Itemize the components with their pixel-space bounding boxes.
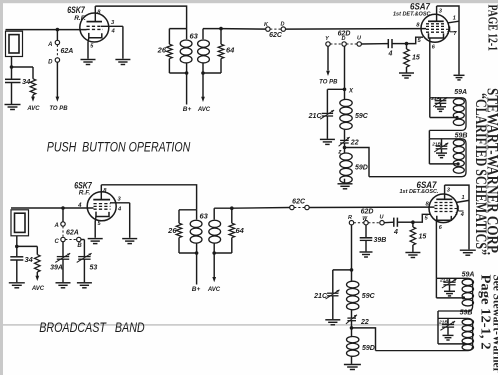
svg-text:62C: 62C xyxy=(292,199,306,206)
svg-text:3: 3 xyxy=(455,211,458,217)
switch 62A dashed contact (top) xyxy=(56,45,58,58)
tube V1 plate and pin 8 xyxy=(87,21,103,23)
node 64 top junction (bottom) xyxy=(230,206,234,210)
svg-text:“CLARIFIED SCHEMATICS”: “CLARIFIED SCHEMATICS” xyxy=(472,93,489,255)
wire 62C to tube V4 grid xyxy=(309,206,434,208)
svg-text:1: 1 xyxy=(462,195,465,201)
wire AVC arrow (top-left) xyxy=(32,95,34,99)
capacitor 4 (top) xyxy=(387,39,389,48)
tube V2 pins 3,7 bracket right xyxy=(446,28,450,30)
switch 62A dashed contact A-C (bottom) xyxy=(62,226,64,237)
wire node Z to 59B bottom (bottom) xyxy=(352,328,376,351)
wire 59A bottom tap (bottom) xyxy=(436,297,463,299)
scan edge top band xyxy=(0,0,498,3)
node secondary-AVC junction (bottom) xyxy=(212,251,216,255)
svg-text:39A: 39A xyxy=(50,265,63,272)
svg-text:59C: 59C xyxy=(362,293,376,300)
svg-text:B+: B+ xyxy=(183,106,192,113)
node secondary-AVC junction (top) xyxy=(201,71,205,75)
node cap4-res15 junction (top) xyxy=(405,42,409,46)
svg-text:Page 12-1, 2: Page 12-1, 2 xyxy=(479,275,494,350)
svg-text:64: 64 xyxy=(236,226,245,235)
wire tube V4 top to ground bus xyxy=(445,185,469,249)
tube V1 cathode xyxy=(89,33,102,38)
wire antenna lead down (bottom) xyxy=(16,236,18,247)
node primary-B+ junction (top) xyxy=(185,71,189,75)
svg-text:4: 4 xyxy=(77,203,82,209)
switch 62A dashed contact C-B (bottom) xyxy=(65,239,76,241)
svg-text:34: 34 xyxy=(25,255,34,264)
svg-text:62C: 62C xyxy=(269,32,283,39)
trimmer capacitor 21A xyxy=(440,98,442,100)
ground for trimmer 21B (bottom) xyxy=(447,327,449,335)
wire junction to tube V2 pin 5 xyxy=(407,37,424,43)
svg-text:21B: 21B xyxy=(438,320,448,326)
svg-text:26: 26 xyxy=(157,46,167,55)
wire B+ (top) xyxy=(186,73,188,105)
svg-text:21A: 21A xyxy=(439,278,449,284)
capacitor 34 (top) xyxy=(11,67,13,79)
switch 62D terminal U (bottom) xyxy=(380,221,384,225)
wire 62D-W to capacitor 39B xyxy=(365,225,367,237)
IF transformer 63 secondary winding (bottom) xyxy=(213,208,215,219)
wire plate V1 to IF transformer 63 (top) xyxy=(95,6,186,29)
switch 62C dashed contact (bottom) xyxy=(294,207,305,209)
loop antenna (bottom section) xyxy=(11,210,29,236)
svg-text:1st DET.&OSC.: 1st DET.&OSC. xyxy=(399,189,438,195)
switch 62D dashed contacts (bottom) xyxy=(354,222,364,224)
wire main antenna bus (bottom section) xyxy=(11,207,94,209)
tube V4 plate and pin 3 top lead xyxy=(436,198,452,200)
svg-text:62A: 62A xyxy=(61,48,74,55)
wire 62D-U to capacitor 4 (bottom) xyxy=(384,221,394,224)
oscillator coil 59C (bottom) xyxy=(351,270,353,281)
svg-text:4: 4 xyxy=(388,51,393,58)
ground below resistor 15 (top) xyxy=(399,72,414,74)
ground below 21C (bottom) xyxy=(332,296,334,319)
loop antenna (top section) xyxy=(6,31,23,56)
wire junction to tube V4 pin 5 xyxy=(413,214,430,222)
svg-text:BROADCAST BAND: BROADCAST BAND xyxy=(39,319,145,335)
svg-text:62D: 62D xyxy=(361,209,374,216)
svg-text:PAGE 12-1: PAGE 12-1 xyxy=(486,5,498,52)
ground below 39A xyxy=(62,259,64,282)
node X oscillator grid (top) xyxy=(343,88,347,92)
tube V1 grid rows xyxy=(87,25,102,27)
wire 59B box left side (bottom) xyxy=(437,318,439,344)
svg-text:4: 4 xyxy=(393,229,398,236)
wire to push buttons (top) xyxy=(56,62,58,98)
resistor 64 shunt (top) xyxy=(203,28,221,30)
scan edge left band xyxy=(0,0,3,375)
wire node X to trimmer 21C (bottom) xyxy=(333,269,352,271)
wire 59A box left side (bottom) xyxy=(435,278,437,298)
svg-text:21A: 21A xyxy=(430,96,440,102)
wire AVC (bottom transformer) xyxy=(213,253,215,279)
svg-text:AVC: AVC xyxy=(197,107,211,113)
switch 62C dashed contact (top) xyxy=(270,28,281,30)
switch 62A terminal A (top) xyxy=(56,30,58,41)
tube V4 pins 3,4 bracket right xyxy=(455,208,459,210)
svg-text:6SK7: 6SK7 xyxy=(67,5,85,15)
svg-text:PUSH BUTTON OPERATION: PUSH BUTTON OPERATION xyxy=(47,139,191,155)
wire 59D to ground (top) xyxy=(344,179,346,184)
svg-text:64: 64 xyxy=(226,46,235,55)
switch 62D terminal U (top) xyxy=(357,42,361,46)
oscillator coil 59D (bottom) xyxy=(347,336,359,342)
svg-text:59D: 59D xyxy=(355,165,368,172)
wire 62C to tube V2 grid xyxy=(286,28,427,31)
trimmer capacitor 21B (bottom) xyxy=(447,318,449,324)
ground for trimmer 21A xyxy=(440,103,442,106)
wire to AVC resistor (bottom) xyxy=(17,245,38,247)
svg-text:4: 4 xyxy=(460,212,464,218)
svg-text:21C: 21C xyxy=(313,293,328,300)
svg-text:B+: B+ xyxy=(192,286,201,293)
scan fold line xyxy=(0,324,470,326)
switch 62C terminal D (top) xyxy=(281,27,285,31)
wire plate V3 to IF transformer 63 (bottom) xyxy=(101,185,196,210)
tube V3 pin 5 lead to ground xyxy=(94,217,97,238)
wire to AVC resistor (top) xyxy=(12,66,34,68)
svg-text:15: 15 xyxy=(419,234,427,241)
tube V1 pin 5 lead to ground xyxy=(87,38,90,59)
switch 62D terminal Y (top) xyxy=(326,42,330,46)
trimmer capacitor 21C (top) xyxy=(322,112,333,114)
wire 59A to 59B link (bottom) xyxy=(437,311,439,318)
wire node Z to 59B bottom xyxy=(345,148,370,177)
wire AVC (top transformer) xyxy=(202,73,204,99)
wire 59B bottom tap xyxy=(429,163,458,165)
wire B+ (bottom) xyxy=(196,253,198,285)
node main-62A junction (bottom) xyxy=(61,206,65,210)
node X oscillator grid (bottom) xyxy=(350,268,354,272)
tube V3 plate and pin 8 xyxy=(93,199,110,201)
tube V3 pin 3 lead to ground xyxy=(110,202,130,204)
resistor 26 shunt (bottom) xyxy=(179,209,197,211)
svg-text:1: 1 xyxy=(453,16,456,22)
ground below 21C (top) xyxy=(326,116,328,139)
tube V1 6SK7 R.F. envelope xyxy=(80,13,109,42)
wire AVC arrow (bottom-left) xyxy=(36,272,38,278)
tube V2 pin 6 lead down xyxy=(429,38,431,98)
tube V2 pin 1 lead xyxy=(448,21,459,23)
svg-text:53: 53 xyxy=(90,265,98,272)
ground right of tube V3 xyxy=(122,238,137,240)
switch 62C terminal K (bottom) xyxy=(290,205,294,209)
ground for trimmer 21A (bottom) xyxy=(449,285,451,291)
IF transformer 63 secondary winding (top) xyxy=(202,29,204,40)
node cap4-res15 junction (bottom) xyxy=(411,220,415,224)
wire 62D-U to capacitor 4 xyxy=(361,43,388,45)
tube V4 cathode xyxy=(437,216,452,221)
svg-text:15: 15 xyxy=(412,55,420,62)
svg-text:39B: 39B xyxy=(374,237,387,244)
svg-text:59A: 59A xyxy=(454,89,467,96)
svg-text:AVC: AVC xyxy=(207,287,221,293)
tube V4 pin 1 lead xyxy=(457,200,469,202)
ground below 39B xyxy=(365,240,367,251)
resistor AVC bleed (bottom) xyxy=(35,255,41,272)
svg-text:59B: 59B xyxy=(460,309,473,316)
ground below resistor 15 (bottom) xyxy=(405,252,420,254)
svg-text:A: A xyxy=(53,223,58,229)
svg-text:22: 22 xyxy=(350,140,359,147)
switch 62C terminal K (top) xyxy=(266,27,270,31)
capacitor 4 (bottom) xyxy=(393,218,395,227)
ground below tube V3 cathode xyxy=(88,238,103,240)
svg-text:TO PB: TO PB xyxy=(319,80,338,86)
svg-text:B: B xyxy=(77,243,82,249)
switch 62D terminal W (bottom) xyxy=(364,221,368,225)
svg-text:3: 3 xyxy=(447,30,450,36)
trimmer capacitor 39A xyxy=(62,242,64,256)
tube V2 cathode xyxy=(429,33,444,38)
ground below 53 xyxy=(83,259,85,282)
tube V2 6SA7 1st DET.&OSC. envelope xyxy=(421,14,449,42)
wire node X to trimmer 21C xyxy=(327,88,344,90)
node antenna-34-AVC junction xyxy=(10,65,14,69)
switch 62A terminal B (bottom) xyxy=(77,237,81,241)
svg-text:R: R xyxy=(348,215,352,221)
wire 59A box left side xyxy=(429,98,431,118)
node Z (bottom) xyxy=(351,321,353,337)
svg-text:21C: 21C xyxy=(308,113,323,120)
svg-text:D: D xyxy=(281,22,285,28)
wire main antenna bus (top section) xyxy=(6,29,87,31)
wire transformer to switch 62C (bottom) xyxy=(232,207,290,210)
trimmer capacitor 21B xyxy=(441,139,443,146)
wire 59A bottom tap xyxy=(430,117,457,119)
wire 62D-R down to node X (bottom) xyxy=(351,225,353,270)
svg-text:TO PB: TO PB xyxy=(49,106,68,112)
tube V2 plate and pin 3 top lead xyxy=(428,20,444,22)
switch 62C terminal D (bottom) xyxy=(305,205,309,209)
tube V3 6SK7 R.F. envelope (bottom) xyxy=(87,192,116,221)
trimmer capacitor 53 xyxy=(81,239,84,241)
wire 62D-D down to node X xyxy=(344,46,346,89)
svg-text:63: 63 xyxy=(200,212,209,221)
wire 59A to 59B link xyxy=(428,130,430,138)
ground below 59D (bottom) xyxy=(344,364,361,366)
switch 62A terminal C (bottom) xyxy=(61,237,65,241)
ground below capacitor 34 (bottom) xyxy=(9,282,25,284)
svg-text:A: A xyxy=(47,42,52,48)
ground for trimmer 21B xyxy=(441,149,443,153)
wire transformer to switch 62C (top) xyxy=(221,28,266,31)
svg-text:AVC: AVC xyxy=(26,106,40,112)
trimmer capacitor 21C (bottom) xyxy=(327,292,338,294)
svg-text:62A: 62A xyxy=(66,230,79,237)
trimmer capacitor 22 (bottom) xyxy=(347,317,356,319)
svg-text:R.F.: R.F. xyxy=(79,189,91,196)
IF transformer 63 primary winding (bottom) xyxy=(196,210,198,220)
oscillator coil 59C (top) xyxy=(344,89,346,99)
node antenna-34-AVC junction (bottom) xyxy=(15,245,19,249)
resistor 64 shunt (bottom) xyxy=(214,207,232,209)
svg-text:AVC: AVC xyxy=(31,286,45,292)
svg-text:R.F.: R.F. xyxy=(74,15,86,22)
trimmer capacitor 22 (top) xyxy=(340,139,349,141)
svg-text:59D: 59D xyxy=(362,345,375,352)
node Z (top) xyxy=(344,143,346,153)
node primary-B+ junction (bottom) xyxy=(195,251,199,255)
svg-text:26: 26 xyxy=(167,226,177,235)
svg-text:1st DET.&OSC.: 1st DET.&OSC. xyxy=(393,12,432,18)
trimmer capacitor 21A (bottom) xyxy=(449,278,451,281)
node 64 top junction xyxy=(219,27,223,31)
resistor 26 shunt (top) xyxy=(169,28,186,30)
wire antenna lead down xyxy=(11,57,13,68)
resistor AVC bleed (top) xyxy=(30,79,36,95)
node main-62A junction (top) xyxy=(56,28,60,32)
switch 62D terminal R (bottom) xyxy=(349,221,353,225)
switch 62D terminal D (top) xyxy=(342,42,346,46)
svg-text:63: 63 xyxy=(190,32,199,41)
ground below tube V2 pin 1 bus xyxy=(454,74,465,76)
switch 62A terminal A (bottom) xyxy=(62,208,64,222)
switch 62D dashed contacts (top) xyxy=(330,43,342,45)
wire 59B bottom tap (bottom) xyxy=(438,343,464,345)
svg-text:34: 34 xyxy=(22,77,31,86)
tube V2 grid rows xyxy=(426,23,446,25)
resistor 15 (bottom) xyxy=(412,222,414,227)
svg-text:22: 22 xyxy=(360,319,369,326)
ground right of tube V1 xyxy=(115,59,130,61)
svg-text:21B: 21B xyxy=(431,142,441,148)
resistor 15 (top) xyxy=(406,44,408,49)
svg-text:59C: 59C xyxy=(355,113,369,120)
tube V4 pin 6 lead down xyxy=(435,220,437,278)
ground below tube V4 pin 1 bus xyxy=(460,249,476,251)
tube V4 6SA7 1st DET.&OSC. envelope (bottom) xyxy=(429,194,458,223)
tube V3 grid rows xyxy=(94,203,111,205)
ground below capacitor 34 (top) xyxy=(5,104,21,106)
tube V1 pin 3 lead to ground xyxy=(101,25,123,27)
wire tube V2 top to ground bus xyxy=(437,6,459,75)
tube V4 grid rows xyxy=(435,202,455,204)
svg-text:D: D xyxy=(48,60,53,66)
IF transformer 63 primary winding (top) xyxy=(186,29,188,40)
oscillator coil 59D (top) xyxy=(340,153,352,160)
wire 62D-Y to push buttons xyxy=(327,46,329,70)
capacitor 34 (bottom) xyxy=(16,246,18,256)
wire 59B box left side xyxy=(428,139,430,164)
tube V3 cathode xyxy=(96,212,109,217)
svg-text:C: C xyxy=(54,239,59,245)
switch 62A terminal D (top) xyxy=(55,58,59,62)
svg-text:D: D xyxy=(342,36,346,42)
svg-text:59A: 59A xyxy=(462,271,475,278)
ground below tube V1 cathode xyxy=(81,59,96,61)
trimmer capacitor 39B xyxy=(360,237,372,239)
